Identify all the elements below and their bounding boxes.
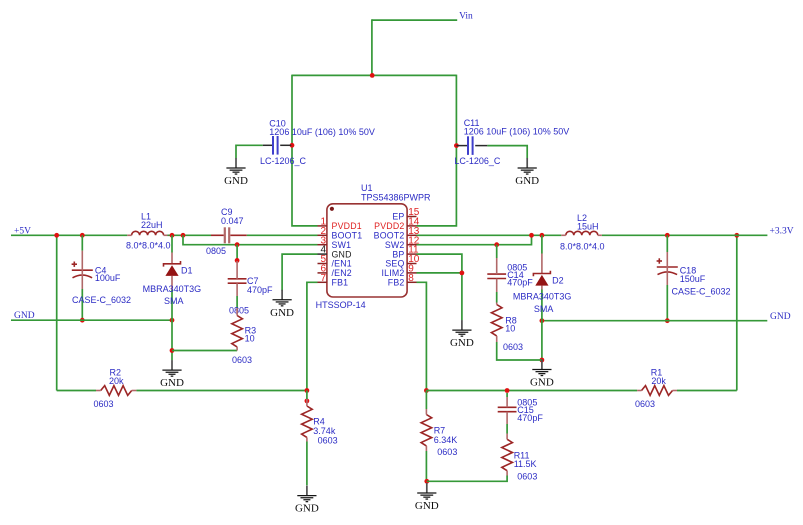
node R3 return junction [170,348,175,353]
wire C18 lower lead [666,285,668,321]
svg-text:470pF: 470pF [507,278,533,288]
wire C10 black pin leads [263,144,273,146]
wire C7-R3 middle segment [236,296,238,308]
svg-text:150uF: 150uF [680,274,706,284]
node R7 bottom junction [424,479,429,484]
wire R4 bottom to ground [306,442,308,486]
node D2 bottom junction [540,318,545,323]
node D2 top junction [540,233,545,238]
wire right input branch vertical to PVDD2 [417,75,457,226]
wire FB2 drop [417,282,427,390]
ground R7 R11 [426,483,428,493]
wire top input rail [292,74,456,76]
node C15 branch junction [505,388,510,393]
svg-text:+3.3V: +3.3V [770,227,794,237]
svg-text:CASE-C_6032: CASE-C_6032 [672,286,731,296]
wire C4 lower lead to GND rail [81,289,83,320]
svg-text:470pF: 470pF [247,285,273,295]
resistor R11 [502,434,513,476]
node C14 branch junction [494,242,499,247]
svg-text:8.0*8.0*4.0: 8.0*8.0*4.0 [560,242,605,252]
pin 14 PVDD2 stub [407,225,416,227]
svg-text:0603: 0603 [503,342,523,352]
wire D2 gnd drop [541,321,543,362]
svg-text:LC-1206_C: LC-1206_C [260,156,307,166]
node C4 bottom junction [80,318,85,323]
wire C10 left to ground [236,145,263,158]
svg-text:11.5K: 11.5K [514,459,537,469]
svg-text:GND: GND [160,377,184,389]
ground C11 [526,158,528,168]
node +5V R2 junction [54,233,59,238]
pin 8 FB2 stub [407,281,416,283]
wire L1 to C9 segment [168,234,212,236]
svg-text:HTSSOP-14: HTSSOP-14 [316,300,366,310]
diode D1 [164,253,181,291]
svg-text:0.047: 0.047 [221,216,244,226]
svg-text:D2: D2 [552,276,564,286]
svg-text:R4: R4 [313,417,325,427]
svg-text:SMA: SMA [534,304,554,314]
node Vin junction [370,73,375,78]
svg-text:MBRA340T3G: MBRA340T3G [143,284,202,294]
svg-text:0603: 0603 [232,355,252,365]
svg-text:0603: 0603 [517,472,537,482]
svg-text:6.34K: 6.34K [434,435,458,445]
ground D2 R8 [541,360,543,370]
node FB1 junction [305,388,310,393]
svg-text:3.74k: 3.74k [313,426,336,436]
wire C15-R11 middle segment [506,393,508,397]
pin 12 SW2 stub [407,244,416,246]
wire C9 to BOOT1 [247,234,318,236]
pin 13 BOOT2 stub [407,234,416,236]
pin 3 SW1 stub [318,244,327,246]
inductor L2 [561,231,602,235]
svg-text:GND: GND [530,377,554,389]
wire BOOT2 rail to L2 [417,234,562,236]
svg-text:0603: 0603 [437,447,457,457]
node R8 return junction [540,358,545,363]
svg-text:GND: GND [770,312,791,322]
node SW1 branch junction [181,233,186,238]
node +3.3V sense junction [734,233,739,238]
node L1 output junction [170,233,175,238]
pin 5 /EN1 stub [318,263,327,265]
svg-text:CASE-C_6032: CASE-C_6032 [72,295,131,305]
capacitor C10 [272,136,274,155]
svg-text:GND: GND [515,175,539,187]
wire D2 bottom green segment [541,290,543,321]
svg-text:TPS54386PWPR: TPS54386PWPR [361,193,431,203]
wire D1 top green segment [171,235,173,252]
wire ILIM2 stub [417,272,462,274]
wire C14-R8 middle segment [496,292,498,303]
svg-text:GND: GND [415,500,439,512]
inductor L1 [127,231,167,235]
wire BP drop to ground [417,254,462,320]
wire FB1 to R4 [306,391,308,400]
svg-text:15uH: 15uH [577,222,599,232]
svg-text:0805: 0805 [229,306,249,316]
pin 1 marker dot [330,207,334,211]
svg-text:0603: 0603 [635,399,655,409]
capacitor C14 [487,258,506,292]
svg-text:0603: 0603 [94,399,114,409]
svg-text:U1: U1 [361,183,373,193]
node C7 branch junction [235,242,240,247]
svg-text:+5V: +5V [14,227,31,237]
pin 6 /EN2 stub [318,272,327,274]
svg-text:10: 10 [505,324,515,334]
wire R2 left segment [57,390,96,392]
svg-text:1206 10uF (106) 10% 50V: 1206 10uF (106) 10% 50V [464,127,570,137]
svg-text:Vin: Vin [459,12,473,22]
svg-text:100uF: 100uF [95,273,121,283]
wire FB1 drop [307,282,318,390]
wire Vin vertical drop [371,19,373,75]
wire R8 bottom return [497,342,542,360]
svg-text:8: 8 [408,273,414,284]
svg-text:470pF: 470pF [517,413,543,423]
resistor R7 [421,409,432,451]
svg-text:GND: GND [14,311,35,321]
wire FB2 bus [426,390,637,392]
svg-text:GND: GND [450,337,474,349]
resistor R4 [302,399,313,442]
diode D2 [533,254,550,290]
resistor R3 [232,308,243,351]
wire GND left rail [11,319,172,321]
svg-text:FB2: FB2 [388,278,405,288]
wire D2 top green segment [541,235,543,253]
pin 7 FB1 stub [318,281,327,283]
svg-text:20k: 20k [651,376,666,386]
ground D1 R3 [171,360,173,370]
wire C18 upper lead [666,235,668,252]
svg-text:1206 10uF (106) 10% 50V: 1206 10uF (106) 10% 50V [269,127,375,137]
wire R2 branch vertical [56,235,58,390]
capacitor C4 polarized [72,251,93,289]
ground C10 [235,158,237,168]
svg-text:MBRA340T3G: MBRA340T3G [513,292,572,302]
wire C4 upper lead [81,235,83,250]
wire R1 right segment [677,390,737,392]
wire C11 right to ground [487,146,527,159]
wire D1 bottom green segment [171,290,173,320]
wire C14 upper lead [496,245,498,258]
svg-text:GND: GND [295,503,319,515]
node R4 top junction [305,399,310,404]
node FB2 junction [424,388,429,393]
node C11 junction [454,143,459,148]
wire D1 gnd drop [171,320,173,360]
svg-text:D1: D1 [181,266,193,276]
pin 9 ILIM2 stub [407,272,416,274]
wire SW2 segment [417,235,532,244]
svg-text:7: 7 [320,273,326,284]
pin 1 PVDD1 stub [318,225,327,227]
svg-text:LC-1206_C: LC-1206_C [454,156,501,166]
capacitor C11 [467,136,469,155]
resistor R2 [96,386,136,396]
wire L2 to +3.3V rail [602,234,768,236]
wire GND right rail [542,320,767,322]
wire SW1 jog [183,235,318,244]
svg-text:20k: 20k [109,376,124,386]
svg-text:0805: 0805 [206,246,226,256]
svg-text:22uH: 22uH [141,220,163,230]
pin 15 EP stub [407,216,416,218]
svg-text:FB1: FB1 [332,278,349,288]
wire R3 bottom return [172,350,237,352]
node BP-ILIM2 junction [460,271,465,276]
node C18 bottom junction [665,318,670,323]
node C18 top junction [665,233,670,238]
pin 10 SEQ stub [407,263,416,265]
capacitor C7 [228,261,247,296]
wire Vin horizontal [372,19,457,21]
wire +5V rail [11,234,127,236]
ground R4 [306,486,308,496]
pin 2 BOOT1 stub [318,234,327,236]
wire R7 top lead [425,391,427,410]
resistor R1 [637,386,677,396]
wire C7 branch stub [236,245,238,261]
wire C11 black pin leads [456,145,467,147]
node C4 top junction [80,233,85,238]
wire R2 right to FB1 node [136,390,307,392]
pin 4 GND stub [318,253,327,255]
resistor R8 [491,303,502,343]
op-amp U1 TPS54386PWPR body [327,204,407,297]
node D1 bottom junction [170,318,175,323]
svg-text:GND: GND [224,175,248,187]
ground BP ILIM2 [461,320,463,330]
node C7 upper junction [235,258,240,263]
capacitor C18 polarized [657,252,678,285]
wire R7 bottom lead [425,451,427,481]
wire left input branch vertical to PVDD1 [292,75,318,226]
svg-text:8.0*8.0*4.0: 8.0*8.0*4.0 [126,241,171,251]
wire R1 output sense vertical [736,235,738,390]
pin 11 BP stub [407,253,416,255]
node SW2-BOOT2 junction [529,233,534,238]
ground pin4 [281,290,283,300]
svg-text:0603: 0603 [318,436,338,446]
node C10 junction [290,143,295,148]
svg-text:10: 10 [245,334,255,344]
svg-text:SMA: SMA [164,296,184,306]
capacitor C15 [498,397,517,424]
capacitor C9 [211,227,247,243]
svg-text:GND: GND [270,307,294,319]
wire GND pin4 [282,254,317,290]
wire R11 bottom return [427,476,507,482]
